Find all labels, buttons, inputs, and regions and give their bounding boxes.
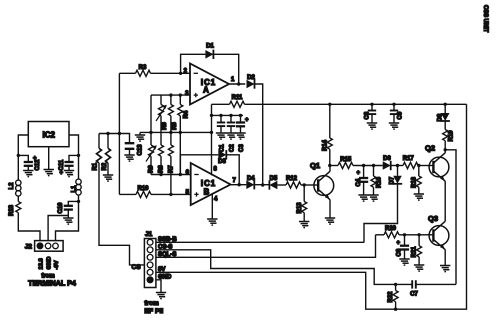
svg-text:R21: R21 bbox=[412, 246, 418, 258]
svg-text:R23: R23 bbox=[9, 204, 15, 216]
svg-text:J2: J2 bbox=[25, 244, 33, 251]
svg-text:+: + bbox=[357, 171, 361, 177]
svg-text:R20: R20 bbox=[385, 226, 397, 232]
svg-text:R6: R6 bbox=[162, 122, 168, 130]
label from EF PII bbox=[144, 300, 163, 315]
wire J2 pin2 riser bbox=[48, 216, 68, 241]
wire IC2 bottom lead bbox=[48, 147, 50, 170]
ground C1 bbox=[216, 133, 226, 139]
capacitor C8 bbox=[365, 104, 377, 123]
node R2 top bbox=[106, 132, 109, 135]
svg-text:from: from bbox=[144, 300, 159, 307]
svg-text:Q1: Q1 bbox=[310, 161, 320, 170]
diode D4 bbox=[246, 176, 255, 189]
wire IC1B output bbox=[231, 184, 247, 186]
node Q1 collector junction bbox=[328, 164, 331, 167]
ground R2 bbox=[103, 163, 113, 181]
ground C3 bbox=[235, 133, 245, 139]
node R14 top on bus bbox=[328, 103, 331, 106]
svg-text:D5: D5 bbox=[270, 176, 278, 182]
capacitor C6 bbox=[397, 235, 410, 259]
svg-text:Q3: Q3 bbox=[428, 214, 438, 223]
resistor R15 bbox=[330, 157, 353, 169]
resistor R14 bbox=[323, 104, 333, 165]
wire SQL-S bbox=[156, 235, 376, 257]
node C4 top bbox=[362, 164, 365, 167]
transistor Q1 bbox=[310, 161, 334, 200]
wire Q2 emitter to Q3 collector bbox=[444, 181, 446, 221]
svg-text:A: A bbox=[203, 86, 209, 95]
svg-text:+: + bbox=[60, 171, 64, 177]
ground C12 bbox=[23, 171, 33, 177]
svg-text:C10: C10 bbox=[58, 202, 64, 214]
diode D6 bbox=[383, 156, 392, 170]
wire Q1 collector lead bbox=[329, 166, 331, 172]
svg-text:+: + bbox=[397, 241, 401, 247]
wire pin6 line bbox=[151, 174, 191, 176]
node R22 top bbox=[394, 283, 397, 286]
wire Q1 emitter lead bbox=[329, 200, 331, 218]
node D1 drop on output bbox=[237, 82, 240, 85]
node col D on rail bbox=[179, 131, 182, 134]
svg-text:CS: CS bbox=[132, 264, 142, 271]
resistor R13 bbox=[297, 185, 307, 222]
svg-text:TERMINAL P4: TERMINAL P4 bbox=[28, 279, 76, 288]
wire Q2 base lead bbox=[429, 165, 434, 167]
resistor R18 bbox=[412, 166, 422, 195]
node R9 bottom on pin5 line bbox=[169, 193, 172, 196]
inductor L1 bbox=[72, 179, 82, 195]
wire riser R3-to-R10 bbox=[118, 73, 120, 194]
node Q2 collector junction bbox=[444, 148, 447, 151]
wire Q3 base lead bbox=[419, 234, 433, 236]
resistor R8 bbox=[159, 145, 165, 175]
svg-text:EF PII: EF PII bbox=[144, 308, 163, 315]
wire pin3 bias line bbox=[151, 94, 190, 96]
wire D3 feedback loop bbox=[180, 155, 239, 185]
node R8 bottom bbox=[159, 173, 162, 176]
svg-text:R3: R3 bbox=[139, 65, 147, 71]
node D7 top bbox=[396, 164, 399, 167]
svg-text:+: + bbox=[33, 156, 37, 162]
svg-text:+: + bbox=[245, 118, 249, 124]
wire GND stub bbox=[156, 280, 161, 293]
node R4 column bottom bbox=[179, 173, 182, 176]
svg-text:-9V: -9V bbox=[54, 260, 60, 269]
svg-text:R9: R9 bbox=[149, 165, 155, 173]
op-amp U1 IC1A bbox=[190, 64, 229, 105]
svg-text:R12: R12 bbox=[286, 176, 298, 182]
svg-text:C11: C11 bbox=[59, 159, 65, 170]
wire bias mid rail bbox=[140, 131, 212, 133]
resistor R12 bbox=[286, 176, 301, 188]
node IC2 right / C11 tap bbox=[77, 154, 80, 157]
ground Q3 emitter bbox=[440, 266, 450, 272]
capacitor C4 bbox=[356, 166, 368, 196]
svg-text:C1: C1 bbox=[220, 144, 226, 152]
wire R11/cap rail bbox=[212, 104, 244, 115]
node riser crossing rail bbox=[118, 132, 121, 135]
wire C11 tap bbox=[69, 155, 79, 162]
wire 8V to bus bbox=[156, 104, 467, 309]
wire pin8 riser bbox=[211, 115, 213, 175]
capacitor C11 bbox=[59, 159, 74, 176]
resistor R5 bbox=[168, 95, 178, 131]
diode D1 bbox=[205, 44, 214, 60]
capacitor C3 bbox=[236, 115, 249, 152]
svg-text:R19: R19 bbox=[449, 130, 455, 142]
resistor R22 bbox=[388, 284, 398, 309]
resistor R6 potentiometer bbox=[156, 95, 168, 130]
wire R4 column to pin6 line bbox=[179, 131, 181, 175]
resistor R9 potentiometer bbox=[146, 145, 157, 175]
svg-text:B: B bbox=[204, 188, 210, 197]
ground C10/J2 pin2 bbox=[63, 216, 73, 225]
node R16 top bbox=[372, 164, 375, 167]
svg-text:R4: R4 bbox=[184, 110, 190, 118]
capacitor C10 bbox=[58, 201, 79, 215]
svg-text:D2: D2 bbox=[247, 75, 255, 81]
svg-text:R16: R16 bbox=[377, 176, 383, 188]
node col A on rail bbox=[149, 131, 152, 134]
resistor R11 bbox=[212, 95, 245, 107]
wire D4 to D5 bbox=[254, 184, 268, 186]
svg-text:C2: C2 bbox=[230, 144, 236, 152]
svg-text:D3: D3 bbox=[218, 159, 226, 165]
node R13 top bbox=[303, 183, 306, 186]
resistor R1 bbox=[93, 134, 102, 171]
resistor R2 bbox=[102, 134, 111, 171]
svg-text:R15: R15 bbox=[340, 157, 352, 163]
svg-text:R13: R13 bbox=[297, 202, 303, 214]
wire C12 tap bbox=[18, 155, 28, 162]
diode D8 bbox=[438, 104, 450, 121]
node R18 top bbox=[417, 164, 420, 167]
capacitor C7 bbox=[410, 280, 418, 297]
wire Q1 base lead bbox=[314, 184, 318, 186]
node IC2 left / C12 tap bbox=[17, 154, 20, 157]
svg-text:13.8: 13.8 bbox=[38, 257, 44, 269]
svg-text:C4: C4 bbox=[356, 178, 362, 186]
svg-text:R7: R7 bbox=[168, 165, 174, 173]
wire R6 bottom to R8 top column bbox=[160, 116, 162, 145]
node C9 top bbox=[392, 103, 395, 106]
wire D2 to D4/D5 junction drop bbox=[255, 84, 263, 185]
node col C on rail bbox=[169, 131, 172, 134]
wire IC2 left lead bbox=[18, 135, 28, 180]
svg-text:D8: D8 bbox=[438, 113, 444, 121]
ground R18 bbox=[414, 194, 424, 200]
svg-text:D6: D6 bbox=[383, 156, 391, 162]
op-amp U1 IC1B bbox=[191, 163, 231, 205]
wire D7 staircase to SSB-B bbox=[364, 184, 398, 243]
wire L1 to J2 pin3 bbox=[56, 195, 79, 241]
svg-text:L2: L2 bbox=[9, 182, 15, 190]
node R22 bottom bbox=[394, 308, 397, 311]
capacitor C9 bbox=[390, 104, 404, 123]
wire R17 to Q2 base bbox=[418, 165, 429, 167]
svg-text:CSS UNIT: CSS UNIT bbox=[482, 5, 488, 33]
ground R21 bbox=[414, 265, 424, 271]
ground bias rail bbox=[135, 132, 145, 141]
node L1 bottom / C10 tap bbox=[77, 200, 80, 203]
wire R23 to J2 pin1 bbox=[18, 213, 40, 241]
wire R15 to D6 bbox=[353, 165, 383, 167]
node D3 drop on output bbox=[238, 183, 241, 186]
svg-text:R8: R8 bbox=[159, 165, 165, 173]
wire input rail R1/R2/C13 bbox=[99, 134, 130, 144]
node D2/D4/D5 junction bbox=[261, 183, 264, 186]
wire R12 to Q1 base bbox=[301, 184, 314, 186]
ground C4 bbox=[358, 195, 368, 201]
svg-text:C3: C3 bbox=[239, 144, 245, 152]
node R21 top bbox=[417, 233, 420, 236]
svg-text:C8: C8 bbox=[365, 111, 371, 119]
svg-text:C7: C7 bbox=[410, 292, 418, 298]
svg-text:Q2: Q2 bbox=[425, 144, 435, 153]
wire R1 down to CS / J1 pin4 bbox=[99, 163, 144, 265]
capacitor C12 bbox=[24, 156, 41, 171]
node D8 top on bus bbox=[444, 103, 447, 106]
wire IC1A output bbox=[229, 83, 245, 85]
label from TERMINAL P4 bbox=[28, 274, 76, 288]
wire CS-S bbox=[156, 250, 412, 285]
wire Q2 collector junction to right drop bbox=[445, 150, 456, 285]
resistor R3 bbox=[119, 65, 190, 76]
wire pin5 line / R10 bbox=[119, 193, 136, 195]
ground R16 bbox=[368, 195, 378, 201]
svg-text:D7: D7 bbox=[390, 176, 396, 184]
transistor Q3 bbox=[428, 214, 449, 250]
node R5 top bbox=[169, 93, 172, 96]
diode D3 bbox=[218, 150, 226, 165]
ground C9 bbox=[389, 123, 399, 129]
svg-text:R18: R18 bbox=[412, 176, 418, 188]
wire col A pin3-to-R9 bbox=[150, 95, 152, 145]
ground C11 bbox=[64, 171, 74, 177]
wire pin4 ground lead bbox=[211, 193, 213, 219]
diode D2 bbox=[247, 75, 256, 89]
node C3 top bbox=[239, 114, 242, 117]
wire D6 to R17 bbox=[391, 165, 403, 167]
wire D5 to R12 bbox=[277, 184, 286, 186]
wire C7 to Q2 drop bbox=[416, 283, 456, 285]
svg-text:L1: L1 bbox=[72, 185, 78, 193]
svg-text:D1: D1 bbox=[206, 44, 214, 50]
svg-text:D4: D4 bbox=[247, 176, 255, 182]
ground Q1 emitter bbox=[325, 218, 335, 224]
wire Q3 emitter lead bbox=[444, 250, 446, 266]
supply bus wire bbox=[245, 103, 467, 105]
resistor R7 bbox=[168, 131, 174, 194]
inductor L2 bbox=[9, 180, 21, 196]
svg-text:R10: R10 bbox=[137, 186, 149, 192]
svg-text:C13: C13 bbox=[138, 144, 144, 156]
transistor Q2 bbox=[425, 144, 449, 182]
resistor R16 bbox=[371, 166, 383, 196]
ground C6 bbox=[399, 259, 409, 265]
wire L2 to R23 bbox=[17, 196, 19, 202]
wire D1 feedback loop bbox=[181, 54, 239, 84]
ground J1 GND bbox=[156, 293, 166, 299]
capacitor C13 bbox=[125, 143, 144, 155]
wire IC2 right lead bbox=[69, 135, 79, 179]
resistor R17 bbox=[403, 156, 418, 169]
capacitor C2 bbox=[227, 115, 236, 152]
diode D7 bbox=[390, 166, 403, 185]
resistor R23 bbox=[9, 202, 21, 217]
resistor R19 bbox=[443, 121, 455, 153]
ground IC1B pin4 bbox=[207, 219, 217, 225]
svg-text:R22: R22 bbox=[388, 291, 394, 303]
capacitor C1 bbox=[217, 115, 226, 152]
node C1 top bbox=[219, 114, 222, 117]
ground C8 bbox=[367, 123, 377, 129]
svg-text:R14: R14 bbox=[323, 139, 329, 151]
ground IC2 bbox=[44, 170, 54, 176]
resistor R10 bbox=[136, 186, 191, 197]
resistor R20 bbox=[384, 226, 419, 238]
svg-text:J1: J1 bbox=[145, 231, 153, 238]
node C8 top bbox=[370, 103, 373, 106]
svg-text:R2: R2 bbox=[102, 162, 108, 170]
node C6 top bbox=[403, 233, 406, 236]
svg-text:R1: R1 bbox=[93, 162, 99, 170]
ground R13 bbox=[299, 222, 309, 228]
svg-text:C6: C6 bbox=[397, 248, 403, 256]
svg-text:GND: GND bbox=[46, 257, 52, 270]
svg-text:R11: R11 bbox=[232, 95, 243, 101]
wire SSB-B bbox=[156, 241, 364, 243]
ground C2 bbox=[226, 133, 236, 139]
wire R20 line / Q3 base bbox=[376, 234, 385, 236]
resistor R4 bbox=[178, 95, 190, 131]
ground C13 bbox=[124, 155, 134, 161]
svg-text:IC2: IC2 bbox=[42, 131, 55, 140]
diode D5 bbox=[269, 176, 277, 190]
connector J1 bbox=[144, 231, 156, 288]
resistor R21 bbox=[412, 235, 422, 265]
svg-text:C9: C9 bbox=[398, 111, 404, 119]
connector J2 bbox=[25, 241, 63, 252]
node C2 top bbox=[229, 114, 232, 117]
node pin2/D1 junction bbox=[179, 72, 182, 75]
svg-text:R17: R17 bbox=[403, 156, 415, 162]
IC2 regulator box bbox=[28, 122, 69, 147]
svg-text:R5: R5 bbox=[172, 122, 178, 130]
node R4 top bbox=[179, 93, 182, 96]
